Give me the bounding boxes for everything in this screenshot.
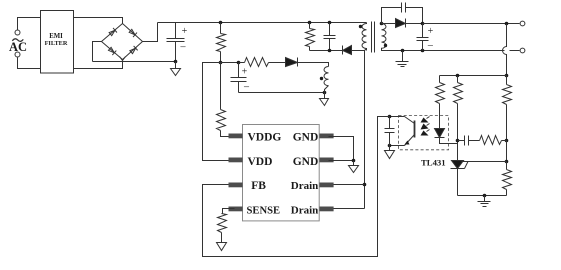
- node startup resistor top: [219, 21, 223, 25]
- ground IC G4: [349, 161, 359, 173]
- svg-text:GND: GND: [293, 132, 319, 144]
- svg-text:Drain: Drain: [291, 204, 319, 216]
- node aux return junction: [323, 91, 327, 95]
- resistor R9 compensation: [480, 136, 502, 145]
- wire TL431 anode to ground rail: [457, 169, 459, 196]
- wire drain vertical: [365, 49, 367, 209]
- svg-text:–: –: [180, 42, 187, 53]
- secondary bottom rail: [382, 49, 505, 51]
- wire FB net collector to FB pin: [203, 117, 390, 257]
- U1 pin Drain2: [320, 207, 334, 212]
- op-amp controller U1 box: [243, 125, 320, 221]
- resistor R2 node A to VDDG: [220, 63, 222, 110]
- node feedback tap on plus rail: [505, 22, 509, 26]
- feedback ground rail: [458, 195, 507, 197]
- C5 polarity labels: [427, 26, 434, 51]
- node output cap bottom: [421, 49, 425, 53]
- bridge bottom corner arrowhead: [120, 57, 126, 61]
- wire node A to VDD pin: [203, 63, 235, 161]
- EMI filter label: [45, 33, 68, 47]
- bridge diode D2 top-right edge: [129, 29, 137, 37]
- svg-text:Drain: Drain: [291, 180, 319, 192]
- wire SENSE pin: [222, 209, 235, 214]
- U1 pin FB: [229, 183, 243, 188]
- node REF junction: [505, 160, 509, 164]
- capacitor C5 output: [417, 24, 429, 51]
- node C2 top: [237, 61, 241, 65]
- optocoupler light arrows: [427, 117, 430, 132]
- TL431 reference line: [462, 161, 507, 163]
- wire secondary top riser: [382, 8, 402, 24]
- wire feedback tap with hop over minus rail: [503, 24, 507, 76]
- node divider top: [505, 74, 509, 78]
- svg-text:+: +: [428, 26, 434, 37]
- capacitor C6 feedback filter: [385, 117, 395, 146]
- wire AC bottom to EMI filter: [18, 58, 41, 69]
- resistor R3 aux series: [239, 62, 245, 64]
- node snubber cap bottom: [328, 49, 332, 53]
- wire aux diode to aux winding top: [298, 63, 329, 67]
- resistor R5 divider upper: [506, 76, 508, 85]
- svg-text:EMI: EMI: [49, 33, 63, 40]
- optocoupler U3 dashed box: [399, 116, 449, 150]
- resistor R1 startup: [220, 23, 222, 34]
- capacitor C7 compensation: [458, 136, 480, 146]
- wire collector lead: [390, 116, 405, 118]
- resistor R8: [457, 76, 459, 83]
- svg-text:VDDG: VDDG: [248, 132, 282, 144]
- node C1 bottom junction: [174, 60, 178, 64]
- node RC junction left: [456, 139, 460, 143]
- diode D7 output rectifier: [382, 23, 396, 25]
- TL431 U2 shunt regulator: [452, 161, 464, 169]
- feedback top line: [440, 75, 507, 77]
- resistor R4 snubber: [309, 23, 311, 29]
- optocoupler LED: [435, 129, 445, 138]
- svg-text:VDD: VDD: [248, 156, 273, 168]
- svg-text:+: +: [182, 26, 188, 37]
- DC plus rail: [158, 22, 367, 24]
- resistor R10 sense: [218, 214, 227, 233]
- C2 polarity labels: [242, 67, 250, 93]
- secondary phasing dot: [384, 44, 387, 47]
- earth ground G6 secondary: [396, 51, 409, 67]
- node secondary top: [380, 22, 384, 26]
- wire bridge right corner riser: [143, 23, 158, 42]
- wire C4 to diode cathode: [406, 8, 423, 24]
- node secondary ground junction: [401, 49, 405, 53]
- transformer core: [372, 22, 375, 53]
- wire node A to C2: [221, 62, 239, 64]
- bridge diode D4 bottom-right edge: [129, 46, 137, 54]
- output terminal plus: [520, 21, 525, 26]
- node feedback ground: [483, 194, 487, 198]
- U1 pin VDD: [229, 158, 243, 163]
- wire GND pin2: [329, 160, 354, 162]
- output plus rail: [423, 23, 520, 25]
- U1 pin labels: [247, 132, 319, 217]
- wire C2 bottom to aux return: [239, 92, 325, 94]
- svg-text:+: +: [242, 67, 248, 78]
- node GND junction: [352, 159, 356, 163]
- node RC junction right: [505, 139, 509, 143]
- capacitor C2 VDD: [231, 63, 247, 93]
- node snubber cap top: [328, 21, 332, 25]
- ground sense G3: [217, 243, 227, 251]
- svg-text:FB: FB: [251, 180, 266, 192]
- transformer secondary winding: [382, 24, 386, 51]
- AC source terminal top: [15, 30, 20, 35]
- bridge rectifier diamond: [102, 24, 143, 60]
- wire GND pin1: [329, 137, 354, 161]
- wire minus rail hop to terminal: [510, 50, 520, 52]
- U1 pin SENSE: [229, 207, 243, 212]
- wire bridge left corner to DC minus rail: [93, 42, 102, 62]
- svg-text:GND: GND: [293, 156, 319, 168]
- node A VDD node: [219, 61, 223, 65]
- snubber bottom line: [310, 50, 343, 52]
- U1 pin Drain1: [320, 183, 334, 188]
- EMI filter box: [41, 11, 74, 74]
- AC source tilde: [12, 39, 23, 42]
- svg-text:SENSE: SENSE: [247, 205, 281, 216]
- ground aux G2: [320, 93, 329, 106]
- wire Drain pin2: [329, 208, 365, 210]
- wire aux winding bottom to ground: [325, 86, 329, 93]
- capacitor C1 bulk: [167, 23, 185, 62]
- resistor R7 opto LED series: [439, 76, 441, 83]
- diode D5 aux: [286, 58, 298, 67]
- bridge diode D3 bottom-left edge: [108, 47, 116, 55]
- svg-text:FILTER: FILTER: [45, 40, 68, 47]
- AC source terminal bottom: [15, 52, 20, 57]
- capacitor C3 snubber: [324, 23, 336, 51]
- U1 pin VDDG: [229, 134, 243, 139]
- wire AC top to EMI filter: [18, 18, 41, 31]
- wire EMI top output to bridge top corner: [74, 18, 123, 24]
- AC source label: [9, 40, 27, 54]
- U1 pin GND2: [320, 158, 334, 163]
- optocoupler phototransistor: [414, 121, 416, 138]
- wire EMI bottom output to bridge bottom corner: [74, 62, 123, 69]
- primary phasing dot: [359, 25, 362, 28]
- resistor R6 divider lower: [506, 162, 508, 170]
- wire Drain pin1: [329, 184, 365, 186]
- wire snubber diode to primary bottom: [352, 50, 365, 52]
- svg-text:–: –: [243, 82, 250, 93]
- aux winding phasing dot: [320, 77, 323, 80]
- svg-text:AC: AC: [9, 40, 27, 54]
- diode D6 snubber clamp: [342, 46, 344, 55]
- svg-text:TL431: TL431: [421, 157, 446, 167]
- node snubber resistor top: [308, 21, 312, 25]
- earth ground G7 feedback: [478, 196, 491, 207]
- inductor aux winding: [324, 67, 329, 86]
- ground primary G1: [171, 62, 181, 76]
- transformer T1 primary winding: [362, 23, 367, 51]
- capacitor C4 diode snubber: [402, 3, 406, 13]
- DC minus rail: [93, 61, 176, 63]
- U1 pin GND1: [320, 134, 334, 139]
- node R8 top: [456, 74, 460, 78]
- output terminal minus: [520, 48, 525, 53]
- ground opto G5: [385, 146, 395, 159]
- C1 polarity labels: [180, 26, 188, 53]
- node output diode cathode: [421, 22, 425, 26]
- node collector junction: [388, 115, 392, 119]
- bridge diode D1 top-left edge: [108, 28, 116, 36]
- wire emitter lead: [390, 145, 405, 147]
- wire divider mid: [506, 141, 508, 162]
- node drain pin 1: [363, 183, 367, 187]
- svg-text:–: –: [427, 40, 434, 51]
- node emitter junction: [388, 144, 392, 148]
